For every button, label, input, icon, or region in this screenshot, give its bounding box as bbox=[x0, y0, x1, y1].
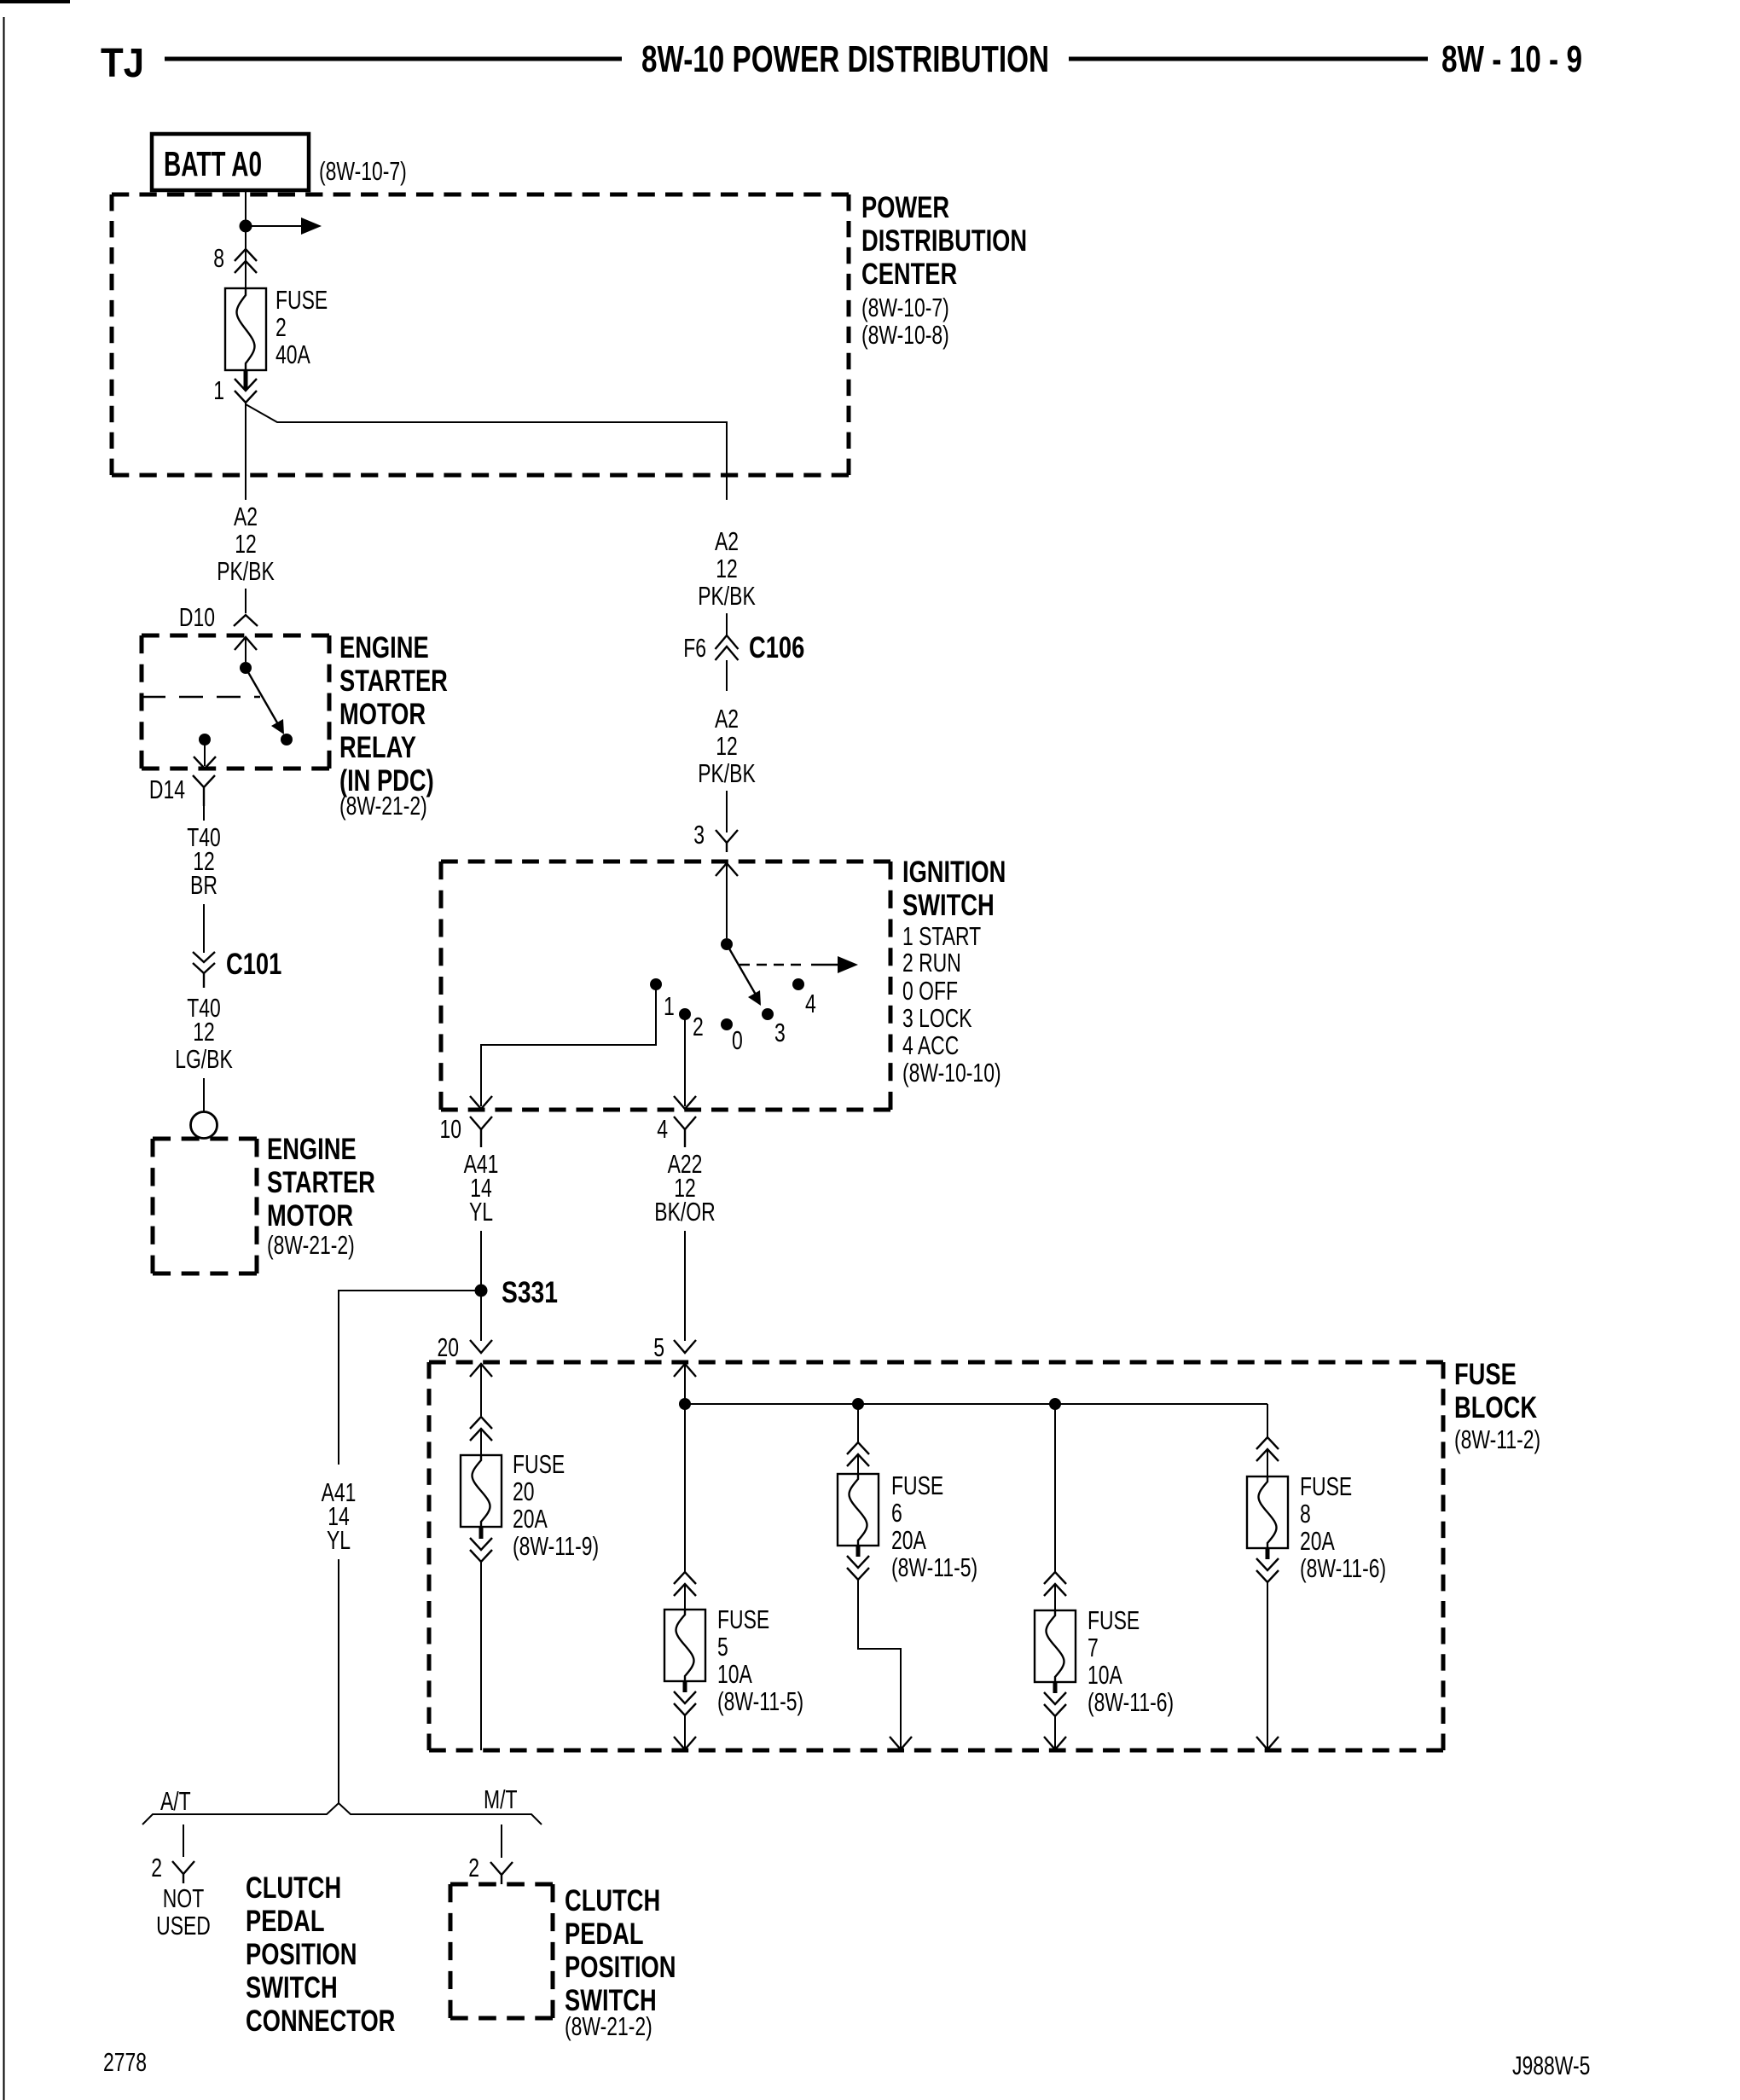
svg-text:BATT A0: BATT A0 bbox=[164, 144, 262, 183]
svg-text:(8W-10-8): (8W-10-8) bbox=[861, 320, 949, 350]
svg-text:ENGINE: ENGINE bbox=[339, 631, 429, 664]
svg-text:(8W-11-9): (8W-11-9) bbox=[513, 1531, 599, 1561]
svg-text:D10: D10 bbox=[179, 602, 215, 632]
svg-text:POSITION: POSITION bbox=[246, 1938, 357, 1971]
svg-text:20: 20 bbox=[438, 1332, 460, 1362]
svg-text:20: 20 bbox=[513, 1476, 535, 1506]
svg-text:CONNECTOR: CONNECTOR bbox=[246, 2004, 395, 2038]
svg-text:F6: F6 bbox=[683, 633, 706, 663]
svg-text:12: 12 bbox=[193, 1017, 215, 1047]
svg-text:(8W-10-7): (8W-10-7) bbox=[319, 156, 407, 186]
svg-text:8W - 10 - 9: 8W - 10 - 9 bbox=[1441, 38, 1582, 80]
svg-text:2: 2 bbox=[275, 312, 287, 342]
svg-text:(8W-11-5): (8W-11-5) bbox=[717, 1686, 803, 1716]
svg-text:(8W-11-2): (8W-11-2) bbox=[1454, 1424, 1540, 1454]
svg-text:SWITCH: SWITCH bbox=[902, 889, 995, 922]
svg-text:20A: 20A bbox=[513, 1504, 548, 1534]
svg-text:2778: 2778 bbox=[103, 2047, 147, 2077]
svg-text:MOTOR: MOTOR bbox=[339, 698, 426, 731]
svg-text:(8W-21-2): (8W-21-2) bbox=[339, 791, 427, 821]
svg-text:USED: USED bbox=[156, 1911, 211, 1940]
svg-text:D14: D14 bbox=[149, 774, 185, 804]
svg-text:FUSE: FUSE bbox=[891, 1471, 943, 1500]
svg-text:PK/BK: PK/BK bbox=[698, 581, 756, 611]
svg-text:POSITION: POSITION bbox=[565, 1951, 676, 1984]
svg-text:DISTRIBUTION: DISTRIBUTION bbox=[861, 224, 1027, 258]
svg-text:3: 3 bbox=[693, 820, 705, 850]
svg-text:IGNITION: IGNITION bbox=[902, 856, 1006, 889]
svg-text:LG/BK: LG/BK bbox=[175, 1044, 233, 1074]
svg-text:C101: C101 bbox=[226, 948, 281, 981]
svg-text:YL: YL bbox=[327, 1525, 351, 1555]
svg-text:CENTER: CENTER bbox=[861, 258, 957, 291]
svg-text:BLOCK: BLOCK bbox=[1454, 1391, 1537, 1424]
svg-text:4 ACC: 4 ACC bbox=[902, 1030, 959, 1060]
svg-text:C106: C106 bbox=[749, 631, 804, 664]
svg-text:0 OFF: 0 OFF bbox=[902, 976, 958, 1006]
svg-text:YL: YL bbox=[469, 1197, 493, 1227]
svg-text:MOTOR: MOTOR bbox=[267, 1199, 353, 1233]
svg-text:FUSE: FUSE bbox=[275, 285, 328, 315]
svg-text:20A: 20A bbox=[1300, 1526, 1335, 1556]
svg-text:PK/BK: PK/BK bbox=[217, 556, 275, 586]
svg-text:(8W-21-2): (8W-21-2) bbox=[267, 1230, 355, 1260]
svg-text:0: 0 bbox=[732, 1025, 743, 1055]
svg-text:FUSE: FUSE bbox=[1454, 1358, 1517, 1391]
svg-text:(8W-11-6): (8W-11-6) bbox=[1300, 1553, 1386, 1583]
svg-text:RELAY: RELAY bbox=[339, 731, 416, 764]
svg-text:7: 7 bbox=[1087, 1633, 1099, 1662]
svg-text:POWER: POWER bbox=[861, 191, 949, 224]
svg-text:10A: 10A bbox=[717, 1659, 752, 1689]
svg-text:1: 1 bbox=[213, 375, 224, 405]
svg-text:1: 1 bbox=[664, 991, 675, 1021]
svg-text:(8W-10-10): (8W-10-10) bbox=[902, 1058, 1001, 1088]
svg-text:2 RUN: 2 RUN bbox=[902, 948, 961, 977]
svg-text:(8W-21-2): (8W-21-2) bbox=[565, 2011, 652, 2041]
svg-text:4: 4 bbox=[657, 1114, 668, 1144]
svg-text:A/T: A/T bbox=[160, 1786, 191, 1816]
svg-text:STARTER: STARTER bbox=[339, 664, 448, 698]
svg-text:CLUTCH: CLUTCH bbox=[246, 1871, 341, 1905]
svg-text:4: 4 bbox=[805, 989, 816, 1018]
svg-text:12: 12 bbox=[716, 554, 738, 583]
svg-text:M/T: M/T bbox=[484, 1784, 518, 1814]
svg-text:A2: A2 bbox=[234, 502, 258, 531]
svg-text:1 START: 1 START bbox=[902, 921, 981, 951]
svg-text:3 LOCK: 3 LOCK bbox=[902, 1003, 972, 1033]
svg-text:(8W-10-7): (8W-10-7) bbox=[861, 293, 949, 322]
svg-text:2: 2 bbox=[468, 1853, 479, 1882]
svg-text:20A: 20A bbox=[891, 1525, 926, 1555]
svg-text:12: 12 bbox=[235, 529, 257, 559]
svg-text:BR: BR bbox=[190, 870, 217, 900]
svg-text:8W-10 POWER DISTRIBUTION: 8W-10 POWER DISTRIBUTION bbox=[641, 38, 1049, 80]
svg-text:TJ: TJ bbox=[101, 41, 144, 86]
svg-text:10: 10 bbox=[440, 1114, 462, 1144]
svg-text:6: 6 bbox=[891, 1498, 902, 1528]
svg-text:40A: 40A bbox=[275, 339, 310, 369]
svg-text:CLUTCH: CLUTCH bbox=[565, 1884, 660, 1917]
svg-text:2: 2 bbox=[693, 1012, 704, 1041]
svg-text:8: 8 bbox=[213, 243, 224, 273]
svg-text:NOT: NOT bbox=[163, 1883, 204, 1913]
svg-text:BK/OR: BK/OR bbox=[654, 1197, 715, 1227]
svg-text:5: 5 bbox=[653, 1332, 664, 1362]
svg-text:S331: S331 bbox=[502, 1276, 558, 1309]
svg-text:PEDAL: PEDAL bbox=[246, 1905, 325, 1938]
svg-text:(8W-11-5): (8W-11-5) bbox=[891, 1552, 977, 1582]
svg-text:12: 12 bbox=[716, 731, 738, 761]
svg-text:STARTER: STARTER bbox=[267, 1166, 375, 1199]
svg-text:SWITCH: SWITCH bbox=[246, 1971, 338, 2004]
svg-text:FUSE: FUSE bbox=[1087, 1605, 1140, 1635]
svg-text:FUSE: FUSE bbox=[513, 1449, 565, 1479]
svg-text:PK/BK: PK/BK bbox=[698, 758, 756, 788]
svg-text:PEDAL: PEDAL bbox=[565, 1917, 644, 1951]
svg-text:3: 3 bbox=[774, 1018, 786, 1047]
svg-text:(8W-11-6): (8W-11-6) bbox=[1087, 1687, 1174, 1717]
svg-text:A2: A2 bbox=[715, 704, 739, 734]
svg-text:5: 5 bbox=[717, 1632, 728, 1662]
svg-text:ENGINE: ENGINE bbox=[267, 1133, 357, 1166]
svg-text:FUSE: FUSE bbox=[1300, 1471, 1352, 1501]
svg-text:8: 8 bbox=[1300, 1499, 1311, 1529]
svg-text:J988W-5: J988W-5 bbox=[1512, 2051, 1590, 2080]
svg-text:10A: 10A bbox=[1087, 1660, 1122, 1690]
svg-text:FUSE: FUSE bbox=[717, 1604, 769, 1634]
svg-text:A2: A2 bbox=[715, 526, 739, 556]
svg-text:2: 2 bbox=[151, 1853, 162, 1882]
